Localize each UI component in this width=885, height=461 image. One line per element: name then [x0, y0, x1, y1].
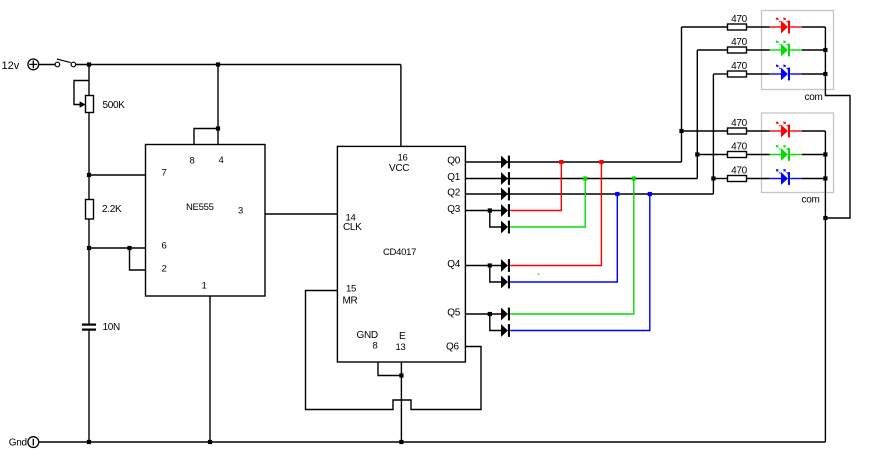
LED green module 1	[770, 41, 802, 57]
resistor R4 470	[728, 37, 748, 53]
wire top supply rail	[76, 64, 401, 66]
node common junction module2 blue	[823, 176, 827, 180]
wire LED green to common	[802, 154, 825, 156]
svg-text:12v: 12v	[2, 60, 20, 72]
diode D7 on Q4 branch	[501, 276, 508, 289]
power terminal 12v	[2, 59, 39, 72]
diode D8 on Q5	[501, 308, 508, 321]
wire pins 8+4 tie bracket	[194, 129, 218, 145]
svg-text:Q5: Q5	[447, 308, 460, 319]
wire LED green to common	[802, 49, 825, 51]
op-amp timer U1 NE555 box	[146, 145, 266, 297]
node blue net junction module 2	[711, 176, 715, 180]
counter U2 CD4017 box	[337, 146, 465, 362]
node Q5 branch junction	[488, 312, 492, 316]
LED module 1 outline	[762, 11, 834, 90]
wire Q5 branch down	[490, 314, 501, 331]
svg-text:Q6: Q6	[446, 342, 459, 353]
wire common module 1	[825, 27, 850, 218]
diode D6 on Q4	[501, 259, 508, 272]
wire resistor to LED red	[747, 130, 770, 132]
wire to NE555 pin 6	[89, 247, 146, 249]
wire MR to Q6 loop with hop	[306, 291, 482, 410]
wire Q1 output row	[465, 178, 697, 180]
wire Q3 to diode	[465, 210, 501, 212]
node Q3 branch junction	[488, 208, 492, 212]
svg-text:Q2: Q2	[447, 188, 460, 199]
svg-text:470: 470	[731, 61, 748, 72]
wire Q4 first colored net	[510, 162, 601, 266]
node colored junction on top row	[583, 176, 587, 180]
wire red net riser	[681, 27, 683, 162]
potentiometer R1 500K	[74, 81, 125, 113]
svg-text:NE555: NE555	[186, 202, 214, 213]
svg-text:470: 470	[731, 14, 748, 25]
svg-text:2: 2	[162, 264, 167, 275]
wire resistor to LED blue	[747, 178, 770, 180]
wire blue net riser	[712, 74, 714, 194]
resistor R6 470	[728, 118, 748, 134]
svg-text:470: 470	[731, 118, 748, 129]
svg-text:E: E	[399, 331, 406, 342]
svg-text:15: 15	[346, 284, 356, 295]
switch S1	[55, 59, 76, 67]
node colored junction on top row	[615, 192, 619, 196]
node pin6 junction left	[87, 246, 91, 250]
wire LED red to common	[802, 130, 825, 132]
svg-text:VCC: VCC	[389, 163, 409, 174]
svg-text:CLK: CLK	[343, 222, 362, 233]
wire Q5 to diode	[465, 313, 501, 315]
wire feed to resistor R8	[713, 178, 727, 180]
wire NE555 pin3 to CD4017 CLK	[265, 213, 337, 215]
LED red module 1	[770, 18, 802, 34]
wire GND net to ground rail	[400, 376, 402, 443]
diode D9 on Q5 branch	[501, 324, 508, 337]
svg-text:com: com	[802, 195, 820, 206]
svg-text:Q0: Q0	[447, 156, 460, 167]
wire LED blue to common	[802, 73, 825, 75]
wire Q5 first colored net	[510, 179, 634, 315]
node red net junction module 2	[679, 129, 683, 133]
wire LED blue to common	[802, 178, 825, 180]
diode D5 on Q3 branch	[501, 221, 508, 234]
node ground junction C1	[87, 440, 91, 444]
node ground junction U2	[399, 440, 403, 444]
LED module 2 outline	[762, 113, 834, 193]
LED blue module 2	[770, 169, 802, 185]
svg-text:CD4017: CD4017	[383, 247, 416, 258]
wire feed to resistor R4	[697, 49, 727, 51]
wire resistor to LED green	[747, 49, 770, 51]
wire Q3 second colored net	[510, 179, 585, 228]
wire Q4 branch down	[490, 266, 501, 283]
node supply junction pin4	[216, 62, 220, 66]
svg-text:8: 8	[373, 341, 378, 352]
svg-text:13: 13	[396, 342, 406, 353]
wire feed to resistor R3	[682, 26, 728, 28]
wire to NE555 pin 7	[89, 174, 146, 176]
wire feed to resistor R5	[713, 73, 727, 75]
node Q4 branch junction	[488, 263, 492, 267]
node pin7 junction	[87, 173, 91, 177]
wire Q3 branch down	[490, 211, 501, 228]
wire pin6 to pin2 loop	[130, 248, 146, 270]
LED green module 2	[770, 145, 802, 161]
svg-text:7: 7	[162, 168, 167, 179]
node green net junction module 2	[695, 152, 699, 156]
wire ground rail	[39, 441, 826, 443]
node supply junction at pot	[87, 62, 91, 66]
wire common module 2 to ground	[824, 131, 826, 442]
wire Q0 output row	[465, 161, 681, 163]
node colored junction on top row	[599, 160, 603, 164]
ground terminal Gnd	[9, 437, 39, 449]
svg-text:470: 470	[731, 165, 748, 176]
wire Q4 second colored net	[510, 194, 617, 282]
wire resistor to LED green	[747, 154, 770, 156]
svg-text:3: 3	[238, 206, 243, 217]
node common junction module1 blue	[823, 72, 827, 76]
svg-text:8: 8	[190, 156, 195, 167]
node pin8/pin13 junction	[399, 373, 403, 377]
LED blue module 1	[770, 65, 802, 81]
svg-text:500K: 500K	[103, 100, 126, 111]
wire 2.2K to capacitor	[88, 219, 90, 324]
resistor R2 2.2K	[86, 200, 123, 220]
diode D3 on Q2	[501, 188, 508, 201]
node colored junction on top row	[559, 160, 563, 164]
wire supply feed to pins 8/4	[217, 65, 219, 129]
resistor R5 470	[728, 61, 748, 77]
wire VCC to supply rail	[400, 65, 402, 147]
wire LED red to common	[802, 26, 825, 28]
svg-text:6: 6	[162, 241, 167, 252]
svg-text:2.2K: 2.2K	[102, 204, 122, 215]
wire Q4 to diode	[465, 265, 501, 267]
svg-text:MR: MR	[343, 296, 358, 307]
svg-text:16: 16	[398, 153, 408, 164]
svg-text:GND: GND	[357, 330, 378, 341]
svg-text:470: 470	[731, 141, 748, 152]
LED red module 2	[770, 122, 802, 138]
node ground junction pin1	[208, 440, 212, 444]
diode D4 on Q3	[501, 204, 508, 217]
wire green net riser	[696, 50, 698, 179]
capacitor C1 10N	[82, 322, 120, 333]
node colored junction on top row	[648, 192, 652, 196]
svg-text:Q1: Q1	[447, 172, 460, 183]
wire resistor to LED red	[747, 26, 770, 28]
svg-text:10N: 10N	[103, 322, 121, 333]
stray speck	[538, 273, 539, 274]
svg-text:Q3: Q3	[447, 204, 460, 215]
wire feed to resistor R6	[682, 130, 728, 132]
wire NE555 pin1 to ground	[209, 296, 211, 442]
node common junction module2 green	[823, 152, 827, 156]
diode D1 on Q0	[501, 156, 508, 169]
diode D2 on Q1	[501, 172, 508, 185]
resistor R8 470	[728, 165, 748, 181]
wire left vertical: rail to pot	[88, 65, 90, 96]
resistor R3 470	[728, 14, 748, 30]
node bracket junction	[216, 126, 220, 130]
node colored junction on top row	[632, 176, 636, 180]
svg-text:1: 1	[202, 281, 207, 292]
wire capacitor to ground rail	[88, 331, 90, 442]
wire CD4017 pin8 GND	[378, 363, 401, 376]
wire Q2 output row	[465, 193, 713, 195]
resistor R7 470	[728, 141, 748, 157]
wire resistor to LED blue	[747, 73, 770, 75]
svg-text:Q4: Q4	[447, 259, 460, 270]
wire feed to resistor R7	[697, 154, 727, 156]
wire 12v to switch	[39, 64, 55, 66]
svg-text:com: com	[805, 92, 823, 103]
svg-text:470: 470	[731, 37, 748, 48]
wire CD4017 pin13 E	[400, 363, 402, 376]
node common tie junction	[823, 216, 827, 220]
svg-text:Gnd: Gnd	[9, 438, 27, 449]
wire pot to 2.2K resistor	[88, 113, 90, 200]
wire Q3 first colored net	[510, 162, 561, 211]
wire Q5 second colored net	[510, 194, 650, 331]
svg-text:4: 4	[219, 155, 224, 166]
node common junction module1 green	[823, 48, 827, 52]
node pin6/pin2 tie junction	[127, 246, 131, 250]
